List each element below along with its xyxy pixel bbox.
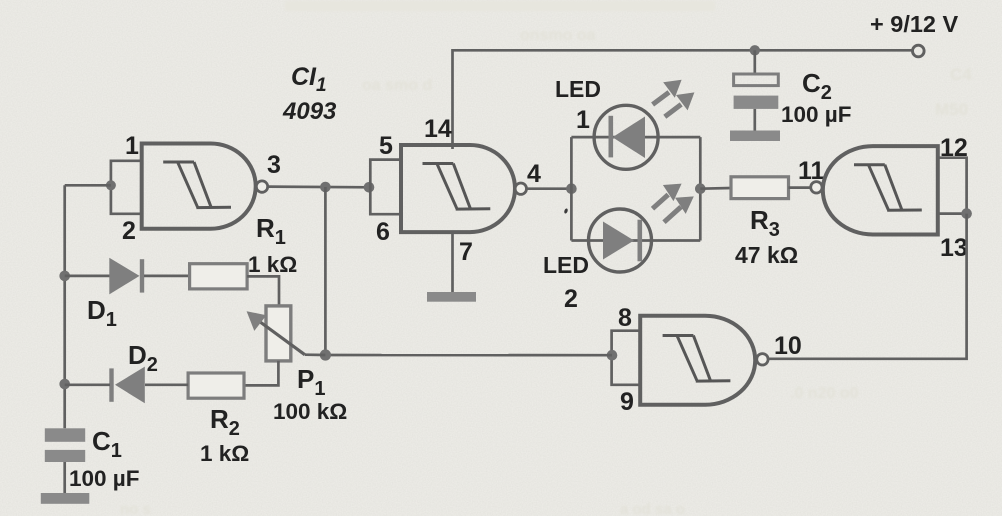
- svg-text:C4: C4: [950, 65, 972, 84]
- svg-text:11: 11: [798, 157, 825, 185]
- svg-text:1: 1: [576, 106, 590, 134]
- wire: C2 top lead: [753, 50, 756, 74]
- schmitt symbol gate b: [423, 164, 491, 210]
- svg-text:100 µF: 100 µF: [781, 102, 852, 127]
- svg-text:1 kΩ: 1 kΩ: [248, 252, 297, 277]
- terminal +9/12V: [913, 45, 925, 57]
- gate b input bracket pins 5,6: [370, 160, 401, 215]
- wire: +V supply rail top: [453, 50, 914, 149]
- wire: pin3 to gate b inputs: [268, 185, 371, 188]
- node: rail to C2 junction: [750, 45, 760, 55]
- wire: gate b pin 7 to ground: [451, 232, 454, 292]
- svg-text:100 kΩ: 100 kΩ: [273, 399, 347, 424]
- svg-text:onsmo oa: onsmo oa: [520, 27, 596, 44]
- diode D1: [109, 258, 144, 295]
- gate a input bracket pins 1,2: [111, 161, 142, 214]
- svg-text:2: 2: [122, 217, 136, 245]
- svg-text:9: 9: [620, 388, 634, 416]
- svg-text:47 kΩ: 47 kΩ: [735, 242, 798, 268]
- label D1: [87, 295, 117, 331]
- potentiometer P1 wiper arrow: [247, 311, 326, 355]
- pin label 4: [527, 160, 541, 188]
- pin label 10: [774, 332, 802, 360]
- label D2: [128, 340, 158, 376]
- wire: D1 to R1: [144, 275, 190, 278]
- wire: D1 row left: [65, 275, 110, 278]
- label 100k P1: [273, 399, 347, 424]
- resistor R3: [731, 177, 789, 199]
- svg-text:7: 7: [459, 238, 473, 266]
- svg-text:a od sa o: a od sa o: [620, 501, 685, 516]
- svg-text:4093: 4093: [282, 98, 337, 125]
- ground under C2: [730, 131, 780, 142]
- wire: pin 10 to gate c inputs: [769, 214, 967, 359]
- node: wiper junction: [320, 349, 331, 360]
- svg-text:LED: LED: [543, 252, 589, 278]
- svg-text:2: 2: [564, 285, 578, 313]
- label C2: [802, 68, 832, 104]
- pin label 13: [940, 234, 968, 262]
- wire: D2 row left: [65, 383, 110, 386]
- schmitt symbol gate a: [163, 162, 231, 208]
- svg-text:1 kΩ: 1 kΩ: [200, 441, 249, 466]
- wire: LED parallel frame: [571, 137, 700, 240]
- LED 2 arrows: [653, 184, 694, 223]
- label R3: [750, 205, 780, 241]
- LED 1 arrows: [653, 80, 695, 117]
- schmitt symbol gate d: [663, 336, 731, 382]
- svg-text:M50: M50: [935, 100, 968, 119]
- gate c input bracket pins 12,13: [938, 158, 967, 214]
- svg-text:4: 4: [527, 160, 541, 188]
- wire: left rail: [63, 185, 66, 428]
- svg-text:3: 3: [267, 151, 281, 179]
- node: D2 junction: [59, 379, 70, 390]
- node: gate b input junction: [364, 182, 375, 193]
- pin label 2: [122, 217, 136, 245]
- wire: P1 wiper to gate d inputs: [325, 354, 612, 357]
- scan speck: [564, 208, 569, 214]
- wire: LED bank to R3: [700, 187, 731, 190]
- wire: feedback vertical to P1 wiper: [324, 187, 327, 355]
- svg-text:6: 6: [376, 218, 390, 246]
- gate d input bracket pins 8,9: [612, 331, 641, 385]
- svg-text:+ 9/12 V: + 9/12 V: [870, 11, 959, 37]
- wire: P1 bottom to R2: [244, 361, 278, 386]
- pin label 14: [424, 115, 452, 143]
- resistor R1: [190, 264, 248, 289]
- diode D2: [109, 367, 145, 404]
- svg-text:1: 1: [125, 132, 139, 160]
- svg-text:13: 13: [940, 234, 968, 262]
- pin label 7: [459, 238, 473, 266]
- LED 1: [594, 105, 658, 169]
- svg-text:12: 12: [940, 134, 968, 162]
- pin label 9: [620, 388, 634, 416]
- LED 2: [589, 209, 652, 272]
- op-amp U3: NAND gate CI1-c body (mirrored): [823, 146, 938, 234]
- resistor R2: [188, 373, 244, 398]
- svg-text:oa smo d: oa smo d: [362, 77, 432, 94]
- label LED 1: [555, 76, 601, 134]
- ground under pin 7: [427, 292, 476, 302]
- label R1: [256, 213, 286, 249]
- svg-text:.0 n20 o0: .0 n20 o0: [790, 385, 859, 402]
- svg-text:14: 14: [424, 115, 452, 143]
- label 100uF C1: [69, 466, 140, 491]
- wire: D2 to R2: [145, 383, 188, 386]
- label 1k R2: [200, 441, 249, 466]
- pin label 3: [267, 151, 281, 179]
- op-amp U4: NAND gate CI1-d body: [640, 316, 755, 405]
- label 4093: [282, 98, 337, 125]
- pin label 11: [798, 157, 825, 185]
- svg-text:5: 5: [379, 132, 393, 160]
- label 1k R1: [248, 252, 297, 277]
- label LED 2: [543, 252, 589, 313]
- ground under C1: [41, 493, 90, 504]
- node: gate a input junction: [106, 180, 116, 190]
- pin label 5: [379, 132, 393, 160]
- node: D1 junction: [59, 271, 70, 282]
- label CI1: [291, 63, 327, 96]
- node: feedback junction: [320, 182, 331, 193]
- pin label 6: [376, 218, 390, 246]
- schmitt symbol gate c: [854, 165, 922, 211]
- node: LED bank right junction: [695, 183, 706, 194]
- pin label 8: [618, 304, 632, 332]
- output bubble pin 10: [757, 354, 768, 365]
- wire: junction to left rail: [65, 184, 111, 187]
- capacitor C1: [45, 428, 85, 493]
- potentiometer P1 body: [266, 306, 291, 361]
- svg-text:LED: LED: [555, 76, 601, 102]
- capacitor C2: [734, 74, 779, 131]
- output bubble pin 3: [256, 181, 267, 192]
- svg-text:10: 10: [774, 332, 802, 360]
- label P1: [297, 364, 325, 400]
- node: LED bank left junction: [566, 183, 577, 194]
- svg-text:100 µF: 100 µF: [69, 466, 140, 491]
- pin label 12: [940, 134, 968, 162]
- label 100uF C2: [781, 102, 852, 127]
- label R2: [210, 404, 240, 440]
- label 47k: [735, 242, 798, 268]
- node: gate d input junction: [607, 350, 618, 361]
- wire: pin 4 to LED bank: [527, 187, 572, 190]
- svg-text:8: 8: [618, 304, 632, 332]
- op-amp U2: NAND gate CI1-b body: [401, 145, 515, 232]
- wire: R1 to P1 top: [247, 276, 279, 306]
- op-amp U1: NAND gate CI1-a body: [142, 144, 256, 229]
- wire: R3 to pin 11: [789, 186, 811, 189]
- svg-text:no s: no s: [120, 501, 151, 516]
- pin label 1: [125, 132, 139, 160]
- node: gate c input junction: [961, 208, 972, 219]
- output bubble pin 11: [811, 182, 822, 193]
- output bubble pin 4: [515, 183, 526, 194]
- label C1: [92, 426, 122, 462]
- label +9/12V: [870, 11, 959, 37]
